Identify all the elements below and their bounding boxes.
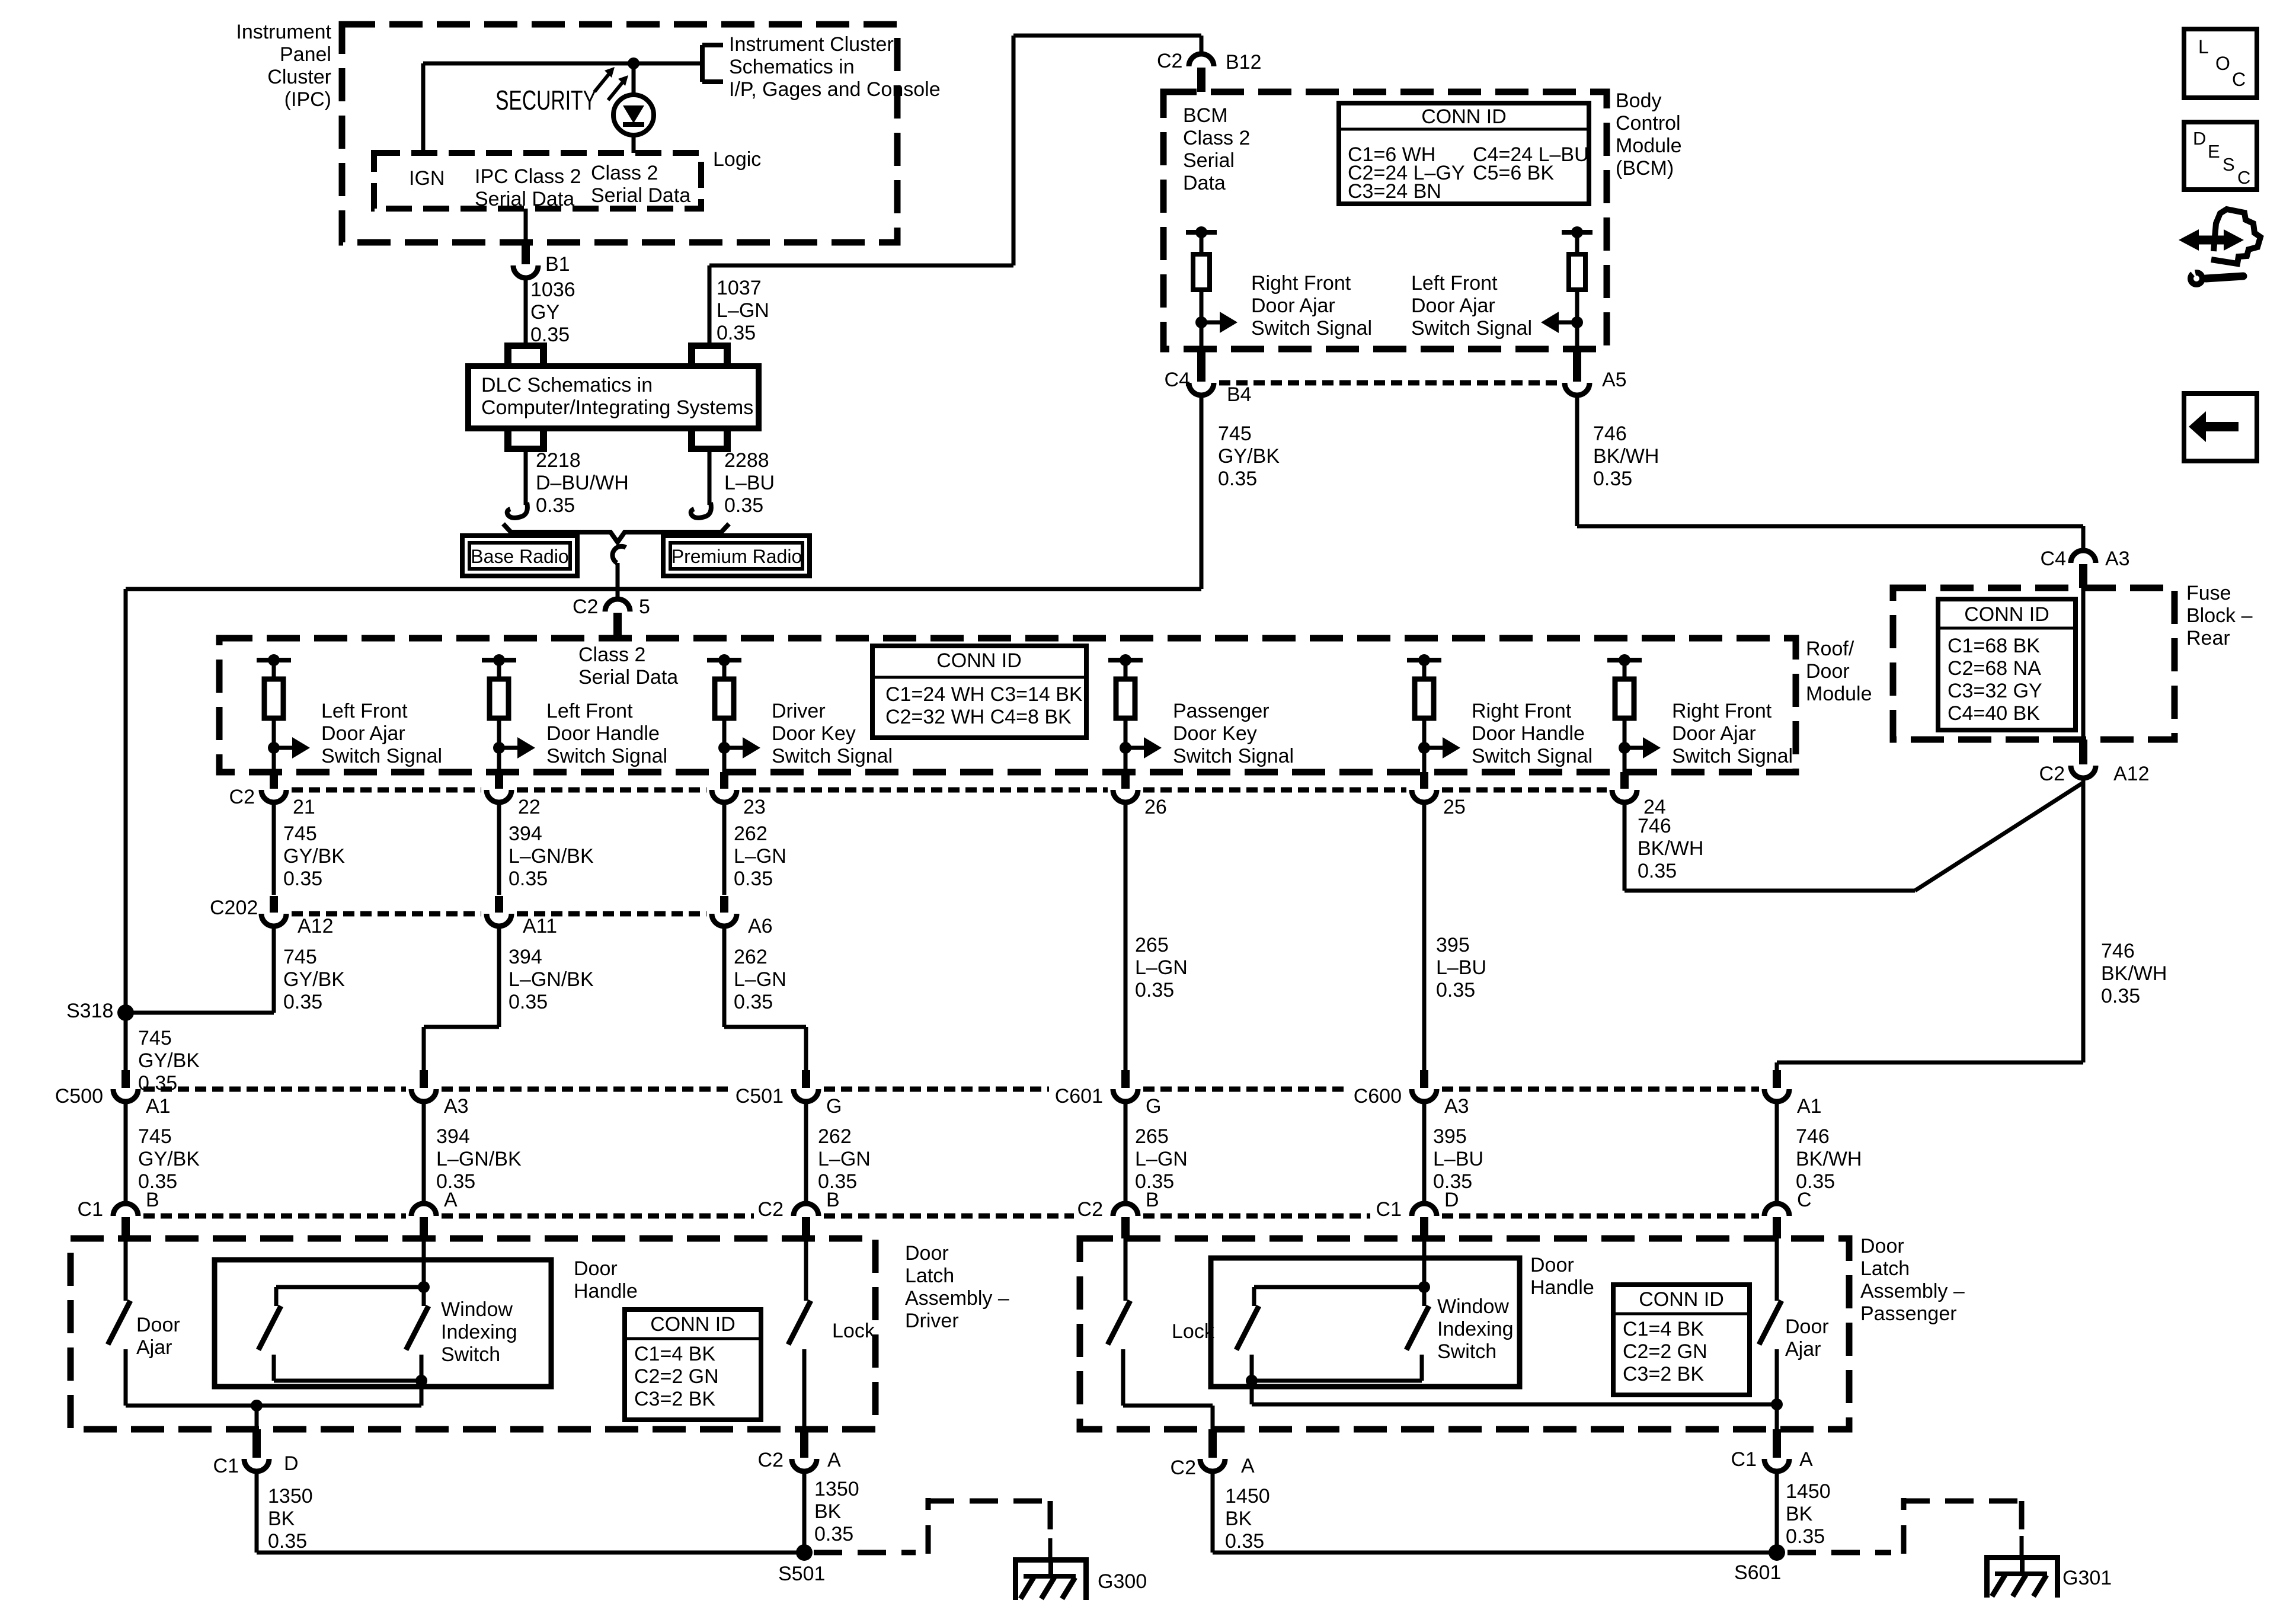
svg-text:(BCM): (BCM) (1616, 157, 1674, 180)
connector C2 pin B12 (1189, 54, 1214, 66)
connector C2 pin 25 (1420, 772, 1428, 789)
svg-text:Instrument Cluster: Instrument Cluster (729, 33, 894, 56)
svg-text:Driver: Driver (772, 700, 826, 722)
svg-text:394: 394 (436, 1125, 470, 1148)
svg-text:C2: C2 (2039, 763, 2065, 785)
svg-text:Computer/Integrating Systems: Computer/Integrating Systems (481, 396, 753, 419)
svg-text:262: 262 (734, 822, 768, 845)
svg-text:Serial: Serial (1183, 149, 1235, 172)
wire 1350 BK from C2 A (802, 1473, 807, 1553)
wire 262 L-GN A6 to C501 (722, 927, 727, 1027)
svg-text:S318: S318 (66, 1000, 113, 1022)
svg-text:Ajar: Ajar (136, 1336, 172, 1359)
svg-text:BK/WH: BK/WH (1593, 445, 1659, 468)
svg-text:GY/BK: GY/BK (283, 968, 345, 991)
svg-text:C5=6 BK: C5=6 BK (1473, 162, 1554, 184)
fuse block CONN ID table (1938, 599, 2076, 730)
LED security indicator (632, 63, 636, 96)
wire through fuse block (2081, 588, 2086, 740)
resistor RF door ajar pull-up (1607, 658, 1642, 662)
svg-text:B: B (146, 1189, 159, 1211)
svg-text:A: A (444, 1189, 458, 1211)
svg-text:1036: 1036 (530, 279, 575, 301)
svg-text:C2: C2 (1077, 1198, 1103, 1221)
switch lock passenger (1124, 1238, 1128, 1301)
wire 1350 BK from C1 D (255, 1473, 259, 1553)
node junction driver door key (718, 742, 730, 754)
svg-text:B: B (1146, 1189, 1159, 1211)
svg-text:GY/BK: GY/BK (138, 1049, 200, 1072)
Fuse Block - Rear dashed box (1893, 588, 2175, 740)
svg-text:Block –: Block – (2186, 604, 2253, 627)
wire end hook 2288 (691, 502, 711, 518)
svg-text:C1=24 WH C3=14 BK: C1=24 WH C3=14 BK (885, 683, 1083, 706)
door connector row dotted line (143, 1087, 406, 1092)
svg-text:21: 21 (293, 796, 315, 818)
svg-text:C4=40 BK: C4=40 BK (1948, 702, 2040, 725)
svg-text:0.35: 0.35 (1786, 1525, 1825, 1548)
svg-text:Serial Data: Serial Data (475, 188, 574, 210)
wire 394 L-GN/BK A3 to A (422, 1102, 426, 1204)
wire 2218 D-BU/WH (524, 452, 528, 505)
svg-text:Driver: Driver (905, 1310, 959, 1332)
svg-text:Latch: Latch (905, 1265, 954, 1287)
svg-text:D: D (2193, 128, 2206, 149)
wire 746 BK/WH down from A12 (2081, 779, 2086, 1062)
svg-text:C: C (2237, 167, 2250, 188)
svg-text:Handle: Handle (574, 1280, 638, 1302)
node junction to C1 D (251, 1400, 263, 1411)
ground distribution wire to G301 (1787, 1550, 1891, 1555)
svg-text:Roof/: Roof/ (1806, 638, 1854, 660)
terminal staple below DLC right (688, 446, 731, 452)
svg-text:C2=68 NA: C2=68 NA (1948, 657, 2041, 680)
svg-text:Assembly –: Assembly – (1860, 1280, 1965, 1302)
svg-text:L–GN/BK: L–GN/BK (436, 1148, 522, 1170)
switch lock driver (804, 1238, 808, 1301)
connector C1 pin A (driver) (411, 1204, 436, 1216)
BCM input rail left (1186, 230, 1217, 235)
vehicle outline icon with double arrow and wrench (2196, 236, 2226, 245)
svg-text:BK/WH: BK/WH (1638, 837, 1703, 860)
svg-text:Switch Signal: Switch Signal (1472, 745, 1593, 767)
svg-text:S: S (2223, 154, 2235, 175)
ground G301 (1984, 1555, 2060, 1560)
svg-text:Left Front: Left Front (1411, 272, 1498, 295)
connector C2 pin 21 (270, 772, 278, 789)
BCM connector face dotted line (1219, 380, 1559, 386)
svg-text:Panel: Panel (280, 43, 331, 66)
Instrument Panel Cluster (IPC) dashed box (342, 24, 897, 242)
svg-text:1037: 1037 (717, 277, 762, 299)
svg-text:Left Front: Left Front (321, 700, 408, 722)
svg-text:GY/BK: GY/BK (138, 1148, 200, 1170)
Door Latch Assembly Passenger dashed box (1080, 1238, 1849, 1429)
arrow driver door key signal (724, 746, 744, 750)
svg-text:Body: Body (1616, 89, 1662, 112)
wire 745 GY/BK branch 21 (272, 803, 276, 895)
node junction LF door handle (493, 742, 505, 754)
resistor passenger door key pull-up (1108, 658, 1143, 662)
svg-text:C2: C2 (1171, 1457, 1196, 1479)
svg-text:C2: C2 (758, 1198, 784, 1221)
svg-text:DLC Schematics in: DLC Schematics in (481, 374, 653, 396)
resistor BCM left-front door ajar (1575, 232, 1579, 254)
svg-text:265: 265 (1135, 934, 1169, 956)
connector C4 pin A3 (2071, 550, 2096, 563)
connector C2 pin 24 (1620, 772, 1629, 789)
svg-text:C2=2 GN: C2=2 GN (634, 1365, 719, 1388)
node junction passenger door key (1120, 742, 1131, 754)
svg-text:Rear: Rear (2186, 627, 2230, 649)
svg-text:262: 262 (818, 1125, 852, 1148)
svg-text:Base Radio: Base Radio (471, 546, 568, 567)
svg-text:BK/WH: BK/WH (2101, 962, 2167, 985)
node S318 splice (117, 1004, 134, 1021)
svg-text:GY: GY (530, 301, 559, 324)
svg-text:A3: A3 (444, 1095, 469, 1118)
LOC icon box (2184, 29, 2257, 98)
connector C2 pin 26 (1121, 772, 1130, 789)
svg-text:1350: 1350 (268, 1485, 313, 1507)
svg-text:Door Key: Door Key (1173, 722, 1257, 745)
svg-text:745: 745 (138, 1027, 172, 1049)
svg-text:BK: BK (814, 1500, 842, 1523)
svg-text:0.35: 0.35 (717, 322, 756, 344)
svg-text:26: 26 (1144, 796, 1167, 818)
svg-text:C1=4 BK: C1=4 BK (634, 1343, 715, 1365)
arrow passenger door key signal (1125, 746, 1145, 750)
BCM input rail right (1562, 230, 1593, 235)
LED emission arrows (594, 73, 610, 92)
svg-text:CONN ID: CONN ID (1639, 1288, 1724, 1311)
svg-text:A: A (1241, 1455, 1255, 1477)
svg-text:0.35: 0.35 (2101, 985, 2140, 1007)
connector C202 face dotted line (292, 911, 481, 917)
node junction arrow left (1571, 316, 1583, 328)
svg-text:0.35: 0.35 (1218, 468, 1257, 490)
svg-text:394: 394 (509, 946, 542, 968)
svg-text:CONN ID: CONN ID (936, 649, 1022, 672)
roof module C2 connector face dotted line (292, 788, 481, 793)
svg-text:C601: C601 (1055, 1085, 1103, 1108)
wire 394 L-GN/BK A11 to A3 (497, 927, 501, 1027)
wire 746 BK/WH A1 to C (1775, 1102, 1779, 1204)
connector C500 pin A3 (420, 1070, 428, 1088)
pigtail below brace (612, 546, 626, 563)
svg-text:GY/BK: GY/BK (283, 845, 345, 868)
svg-text:Door: Door (905, 1242, 949, 1265)
arrow RF door handle signal (1424, 746, 1444, 750)
svg-text:O: O (2215, 53, 2230, 74)
svg-text:B: B (826, 1189, 840, 1211)
svg-text:Switch Signal: Switch Signal (1173, 745, 1294, 767)
svg-text:A: A (827, 1449, 841, 1471)
svg-text:Class 2: Class 2 (591, 162, 658, 184)
svg-text:745: 745 (283, 822, 317, 845)
svg-text:0.35: 0.35 (536, 494, 575, 517)
door handle inner box driver (215, 1260, 551, 1387)
wire 395 L-BU branch 25 (1422, 803, 1427, 1070)
svg-text:G: G (1146, 1095, 1161, 1118)
svg-text:395: 395 (1433, 1125, 1467, 1148)
svg-text:2288: 2288 (724, 449, 769, 472)
wire 745 GY/BK A12 to S318 (272, 927, 276, 1013)
wire 265 L-GN C601 to C2 (1124, 1102, 1128, 1204)
wire 745 GY/BK from B4 (1200, 396, 1204, 589)
switch door ajar driver (124, 1238, 128, 1301)
wire 745 GY/BK rail to S318 (126, 587, 1201, 591)
svg-text:0.35: 0.35 (509, 991, 548, 1013)
svg-text:395: 395 (1436, 934, 1470, 956)
node junction dot above security LED (628, 57, 639, 69)
connector C1 pin D (passenger) (1412, 1204, 1437, 1216)
node junction RF door handle (1418, 742, 1430, 754)
driver latch CONN ID table (625, 1310, 761, 1420)
svg-text:0.35: 0.35 (1225, 1530, 1264, 1553)
node junction door ajar output (1771, 1398, 1783, 1410)
wire window output passenger (1250, 1381, 1254, 1404)
switch window indexing right driver (422, 1287, 426, 1306)
svg-text:L–BU: L–BU (724, 472, 775, 494)
svg-text:25: 25 (1443, 796, 1466, 818)
svg-text:1350: 1350 (814, 1478, 859, 1500)
terminal staple below DLC left (504, 446, 547, 452)
svg-text:(IPC): (IPC) (284, 88, 331, 111)
svg-text:BK/WH: BK/WH (1796, 1148, 1862, 1170)
svg-text:CONN ID: CONN ID (1421, 105, 1507, 128)
svg-text:745: 745 (138, 1125, 172, 1148)
svg-text:C600: C600 (1354, 1085, 1402, 1108)
svg-text:D–BU/WH: D–BU/WH (536, 472, 629, 494)
resistor BCM right-front door ajar (1200, 232, 1204, 254)
connector C600 pin A3 (1420, 1070, 1428, 1088)
wire 1037 L-GN riser to BCM (708, 265, 712, 343)
roof module CONN ID table (872, 646, 1086, 738)
svg-text:D: D (1444, 1189, 1459, 1211)
svg-text:A1: A1 (146, 1095, 171, 1118)
terminal staple above DLC left (504, 343, 547, 349)
svg-text:B12: B12 (1226, 51, 1262, 73)
svg-text:5: 5 (639, 596, 650, 618)
svg-text:2218: 2218 (536, 449, 581, 472)
connector C1 pin D exit driver (252, 1429, 261, 1458)
svg-text:Right Front: Right Front (1251, 272, 1351, 295)
svg-text:262: 262 (734, 946, 768, 968)
svg-text:L–GN/BK: L–GN/BK (509, 845, 594, 868)
svg-text:Fuse: Fuse (2186, 582, 2231, 604)
connector C2 pin B (passenger) (1113, 1204, 1138, 1216)
terminal staple above DLC right (688, 343, 731, 349)
connector C1 pin A exit passenger (1773, 1429, 1781, 1458)
svg-text:G: G (826, 1095, 842, 1118)
wire 262 L-GN branch 23 (722, 803, 727, 895)
svg-text:746: 746 (1638, 815, 1671, 837)
svg-text:A11: A11 (523, 915, 557, 937)
resistor RF door handle pull-up (1407, 658, 1441, 662)
svg-text:L–GN: L–GN (734, 968, 786, 991)
svg-text:0.35: 0.35 (724, 494, 763, 517)
svg-text:0.35: 0.35 (1593, 468, 1632, 490)
arrow LF door handle signal (499, 746, 519, 750)
svg-text:Door: Door (574, 1257, 618, 1280)
connector C2 pin B (driver) (794, 1204, 818, 1216)
brace joining serial data wires (503, 524, 729, 542)
svg-text:0.35: 0.35 (814, 1523, 853, 1545)
arrow LF door ajar signal (274, 746, 293, 750)
svg-text:Class 2: Class 2 (578, 644, 645, 666)
switch window indexing left passenger (1252, 1287, 1256, 1306)
svg-text:Switch Signal: Switch Signal (1411, 317, 1532, 340)
connector B1 stub (522, 242, 530, 264)
svg-text:C202: C202 (210, 897, 258, 919)
resistor LF door ajar pull-up (257, 658, 291, 662)
svg-text:Door Ajar: Door Ajar (1411, 295, 1495, 317)
svg-text:1450: 1450 (1225, 1485, 1270, 1507)
svg-text:Door: Door (1530, 1254, 1574, 1276)
svg-text:C1=4 BK: C1=4 BK (1623, 1318, 1704, 1340)
svg-text:L–BU: L–BU (1436, 956, 1486, 979)
wire window output driver (420, 1381, 424, 1406)
wire end hook 2218 (507, 502, 527, 518)
node S501 splice (796, 1544, 813, 1561)
node junction LF door ajar (268, 742, 280, 754)
svg-text:Switch Signal: Switch Signal (1672, 745, 1793, 767)
svg-text:A12: A12 (2113, 763, 2150, 785)
svg-text:Switch: Switch (1437, 1340, 1496, 1363)
door latch connector row dotted line (143, 1214, 406, 1219)
svg-text:Door Handle: Door Handle (546, 722, 660, 745)
svg-text:C4: C4 (1165, 369, 1190, 391)
connector C2 pin 5 (605, 599, 630, 612)
svg-text:Door: Door (1785, 1315, 1829, 1338)
svg-text:Door Key: Door Key (772, 722, 856, 745)
svg-text:BK: BK (1225, 1507, 1252, 1530)
svg-text:0.35: 0.35 (509, 868, 548, 890)
svg-text:Door Ajar: Door Ajar (321, 722, 405, 745)
svg-text:C: C (1797, 1189, 1812, 1211)
svg-text:A6: A6 (748, 915, 773, 937)
svg-text:C1: C1 (78, 1198, 103, 1221)
back arrow icon box (2184, 393, 2257, 461)
wire window switch input passenger (1422, 1238, 1427, 1287)
svg-text:CONN ID: CONN ID (1964, 603, 2049, 626)
Premium Radio box (663, 536, 810, 576)
DESC icon box (2184, 122, 2257, 190)
svg-text:L–GN: L–GN (1135, 1148, 1188, 1170)
wire 262 L-GN C501 to C2 (804, 1102, 808, 1204)
svg-text:B4: B4 (1227, 383, 1252, 406)
svg-text:C2=2 GN: C2=2 GN (1623, 1340, 1707, 1363)
svg-text:Switch Signal: Switch Signal (772, 745, 893, 767)
svg-text:Module: Module (1806, 683, 1872, 705)
svg-text:Premium Radio: Premium Radio (671, 546, 802, 567)
svg-text:L–GN/BK: L–GN/BK (509, 968, 594, 991)
svg-text:Cluster: Cluster (267, 66, 331, 88)
connector C2 pin A exit driver (800, 1429, 808, 1458)
svg-text:IPC Class 2: IPC Class 2 (475, 165, 581, 188)
svg-text:I/P, Gages and Console: I/P, Gages and Console (729, 78, 941, 101)
BCM CONN ID table (1339, 103, 1589, 204)
svg-text:C2: C2 (573, 596, 598, 618)
wire IGN vertical (421, 63, 426, 153)
node S601 splice (1769, 1544, 1785, 1561)
svg-text:Window: Window (1437, 1295, 1509, 1318)
svg-text:265: 265 (1135, 1125, 1169, 1148)
svg-text:C2: C2 (229, 786, 255, 808)
svg-text:A1: A1 (1797, 1095, 1822, 1118)
svg-text:A5: A5 (1602, 369, 1627, 391)
svg-text:1450: 1450 (1786, 1480, 1831, 1503)
wire 394 L-GN/BK branch 22 (497, 803, 501, 895)
logic dashed box (374, 153, 701, 209)
svg-text:BCM: BCM (1183, 104, 1228, 127)
wire window switch input driver (422, 1238, 426, 1287)
svg-text:Door: Door (136, 1314, 180, 1336)
svg-text:Door Handle: Door Handle (1472, 722, 1585, 745)
svg-text:0.35: 0.35 (734, 868, 773, 890)
svg-text:Door Ajar: Door Ajar (1672, 722, 1756, 745)
wire 746 BK/WH branch 24 (1623, 803, 1627, 891)
connector C601 pin G (1121, 1070, 1130, 1088)
connector C1 pin B (driver) (113, 1204, 138, 1216)
wire to passenger door C connector (1777, 1061, 2083, 1065)
svg-text:A3: A3 (1444, 1095, 1469, 1118)
svg-text:Right Front: Right Front (1472, 700, 1572, 722)
svg-text:0.35: 0.35 (1436, 979, 1475, 1001)
svg-text:G301: G301 (2062, 1567, 2112, 1589)
svg-text:Passenger: Passenger (1173, 700, 1269, 722)
svg-text:B1: B1 (545, 253, 570, 276)
connector C600 pin A1 (1773, 1070, 1781, 1088)
svg-text:Left Front: Left Front (546, 700, 633, 722)
svg-text:0.35: 0.35 (283, 991, 322, 1013)
svg-text:Ajar: Ajar (1785, 1338, 1821, 1361)
svg-text:Data: Data (1183, 172, 1226, 194)
svg-text:C3=2 BK: C3=2 BK (634, 1388, 715, 1410)
svg-text:0.35: 0.35 (734, 991, 773, 1013)
svg-text:C2=32 WH C4=8 BK: C2=32 WH C4=8 BK (885, 706, 1072, 728)
svg-text:GY/BK: GY/BK (1218, 445, 1280, 468)
svg-text:Module: Module (1616, 135, 1682, 157)
connector pin A5 (1573, 349, 1581, 382)
switch window indexing left driver (274, 1287, 279, 1306)
svg-text:L–GN: L–GN (717, 299, 769, 322)
svg-text:L–GN: L–GN (734, 845, 786, 868)
connector C202 pin A6 (720, 896, 728, 913)
svg-text:0.35: 0.35 (283, 868, 322, 890)
svg-text:Door: Door (1860, 1235, 1904, 1257)
resistor LF door handle pull-up (482, 658, 516, 662)
connector B1 (513, 265, 538, 278)
svg-text:Latch: Latch (1860, 1257, 1910, 1280)
svg-text:IGN: IGN (409, 167, 445, 190)
svg-text:Schematics in: Schematics in (729, 56, 855, 78)
svg-text:0.35: 0.35 (1638, 860, 1677, 882)
wire IPC internal horizontal (423, 62, 702, 66)
svg-text:C2: C2 (758, 1449, 784, 1471)
svg-text:C4: C4 (2041, 548, 2066, 570)
svg-text:745: 745 (283, 946, 317, 968)
svg-text:A3: A3 (2105, 548, 2130, 570)
svg-text:Right Front: Right Front (1672, 700, 1772, 722)
svg-text:C3=32 GY: C3=32 GY (1948, 680, 2042, 702)
svg-text:C1=68 BK: C1=68 BK (1948, 635, 2040, 657)
arrow RF door ajar signal (1625, 746, 1644, 750)
svg-text:22: 22 (518, 796, 541, 818)
Base Radio box (462, 536, 577, 576)
svg-text:C1: C1 (1731, 1448, 1757, 1471)
